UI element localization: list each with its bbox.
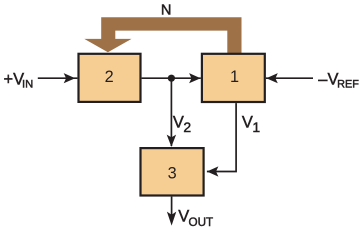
feedback arrow N (brown): [84, 17, 241, 54]
svg-text:1: 1: [230, 68, 239, 86]
junction node: [168, 75, 175, 82]
svg-text:2: 2: [105, 68, 114, 86]
arrowhead VOUT: [167, 212, 176, 226]
wire box2 to box1: [142, 77, 201, 79]
wire V2 branch down to box3: [170, 78, 172, 146]
block 3: [141, 148, 204, 195]
block 2: [79, 54, 141, 102]
wire V1 from box1 bottom to box3 right: [207, 103, 236, 171]
block 1: [202, 54, 265, 102]
arrowhead into box1 right: [266, 73, 278, 83]
wire -VREF to box1: [266, 77, 313, 79]
svg-text:N: N: [161, 3, 172, 19]
arrowhead into box1: [189, 73, 201, 83]
wire VOUT from box3 bottom: [171, 197, 173, 222]
wire +VIN to box2: [38, 77, 78, 79]
arrowhead into box3 top: [167, 135, 176, 147]
svg-text:3: 3: [168, 164, 177, 182]
arrowhead into box2: [64, 73, 75, 83]
arrowhead into box3 right: [207, 166, 219, 176]
